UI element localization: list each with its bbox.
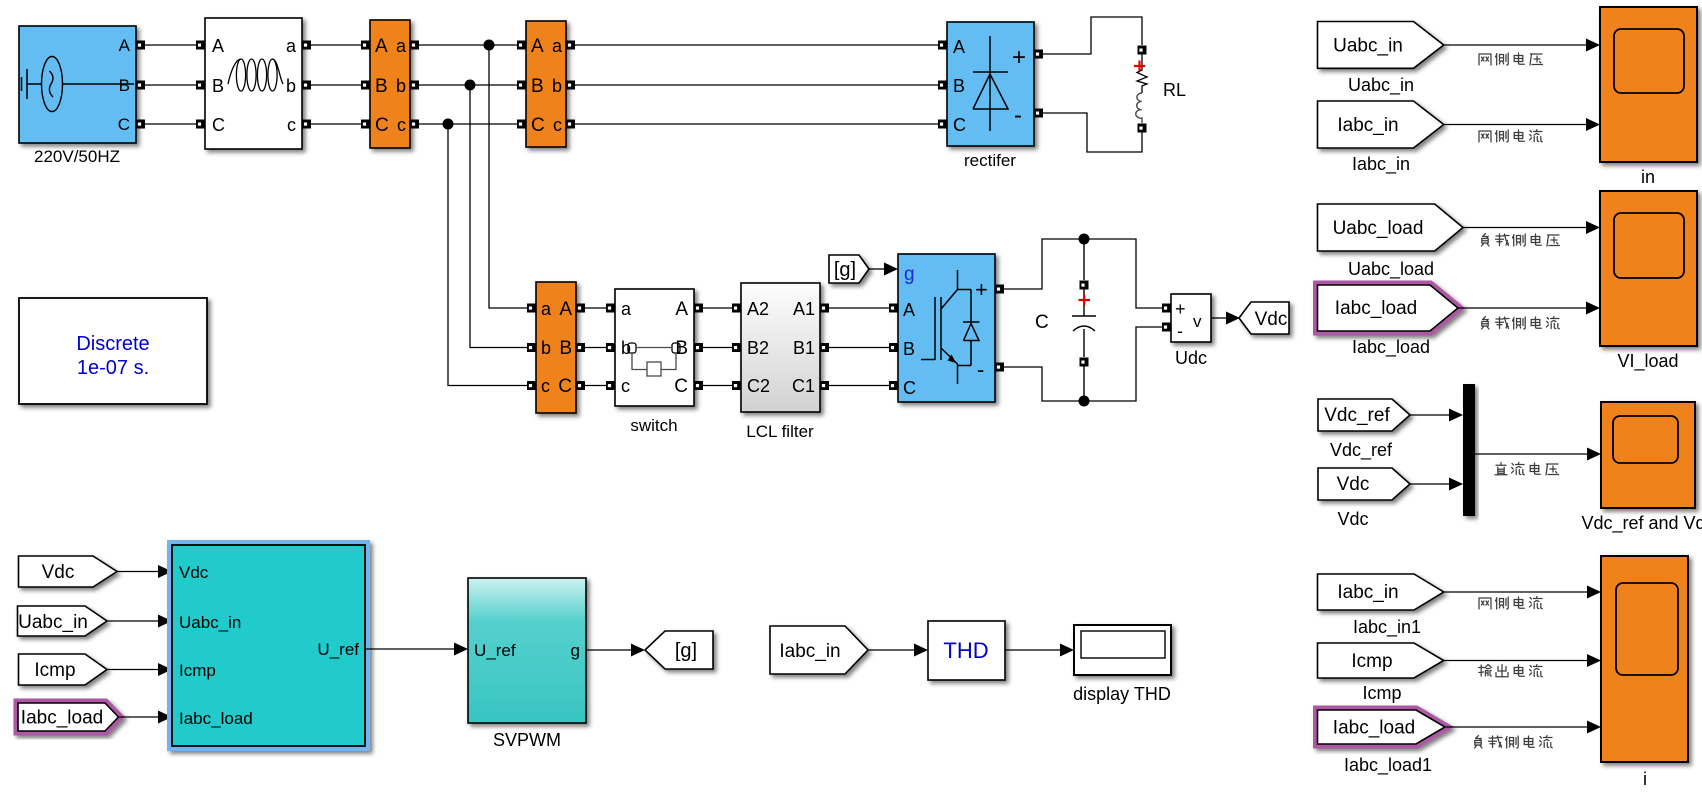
- svg-text:Icmp: Icmp: [179, 661, 216, 680]
- From tag Icmp (controller input): [19, 654, 108, 685]
- svg-text:Vdc_ref and Vdc: Vdc_ref and Vdc: [1581, 513, 1702, 534]
- rectifier output ports: [1034, 50, 1043, 59]
- wire rowA meas2-to-rectifier: [575, 44, 938, 46]
- meas1 right ports: [410, 41, 419, 50]
- From tag Uabc_in (controller input): [18, 606, 108, 636]
- node dc minus: [1079, 396, 1090, 407]
- label Uabc_load: [1348, 259, 1434, 280]
- wire phase c switch-to-LCL: [703, 385, 732, 387]
- svg-text:Icmp: Icmp: [34, 660, 75, 681]
- wire phase b meas3-to-switch: [585, 347, 606, 349]
- svg-text:b: b: [621, 338, 631, 358]
- label LCL filter: [746, 422, 814, 441]
- wire Iabc_in to THD: [868, 644, 928, 657]
- LCL filter block: [741, 283, 820, 412]
- wire Icmp to controller: [107, 663, 172, 676]
- switch left ports: [606, 304, 615, 313]
- wire mux to scope Vdc: [1475, 448, 1601, 461]
- svg-text:Icmp: Icmp: [1362, 683, 1401, 703]
- svg-text:Uabc_load: Uabc_load: [1348, 259, 1434, 280]
- svg-text:B: B: [559, 338, 572, 359]
- scope Vdc_ref and Vdc: [1601, 402, 1695, 508]
- svg-text:C: C: [953, 115, 966, 135]
- wire label load-side current: [1482, 317, 1560, 330]
- wire Udc to Goto Vdc: [1211, 312, 1240, 325]
- svg-text:Vdc: Vdc: [42, 562, 75, 583]
- wire inverter minus to Udc minus: [1004, 327, 1162, 401]
- label Iabc_load1: [1344, 755, 1432, 776]
- svg-text:switch: switch: [630, 416, 677, 435]
- svg-text:B1: B1: [793, 338, 815, 358]
- svg-text:rectifer: rectifer: [964, 151, 1016, 170]
- From tag Vdc_ref: [1318, 399, 1410, 431]
- source port A: [136, 41, 145, 50]
- label Iabc_in1: [1353, 617, 1421, 638]
- label Iabc_in: [1352, 154, 1410, 175]
- display THD block: [1074, 625, 1171, 675]
- svg-text:B: B: [675, 338, 688, 359]
- wire Uabc_in to controller: [107, 615, 172, 628]
- From tag Uabc_in (scope in): [1318, 22, 1444, 69]
- From tag g: [829, 255, 869, 283]
- From tag Iabc_in (scope in): [1318, 101, 1444, 148]
- Udc voltage measurement: [1171, 294, 1211, 342]
- capacitor top port: [1080, 281, 1089, 290]
- svg-text:+: +: [975, 277, 988, 302]
- wire phase c LCL-to-inverter: [829, 385, 889, 387]
- label Udc: [1175, 348, 1207, 368]
- svg-text:B: B: [903, 339, 915, 359]
- wire label output current: [1479, 665, 1543, 677]
- svg-text:A: A: [212, 36, 224, 56]
- wire SVPWM to Goto g: [586, 644, 645, 657]
- svg-text:c: c: [287, 115, 296, 135]
- wire Uabc_load to scope VI_load: [1463, 221, 1600, 234]
- svg-text:A: A: [375, 36, 388, 57]
- svg-text:a: a: [541, 299, 552, 319]
- svg-text:SVPWM: SVPWM: [493, 730, 561, 750]
- switch right ports: [694, 304, 703, 313]
- meas3 right ports: [576, 304, 585, 313]
- three-phase VI measurement meas2: [526, 21, 566, 147]
- wire rowC meas1-to-meas2: [419, 123, 517, 125]
- wire Iabc_load to scope i: [1445, 721, 1601, 734]
- svg-text:display THD: display THD: [1073, 684, 1171, 704]
- label rectifer: [964, 151, 1016, 170]
- THD block: [928, 621, 1005, 680]
- three-phase inductor block: [205, 18, 302, 149]
- svg-text:Vdc_ref: Vdc_ref: [1324, 405, 1390, 426]
- inverter dc ports: [995, 285, 1004, 294]
- svg-text:A: A: [953, 37, 965, 57]
- wire From-g to inverter gate: [869, 263, 898, 276]
- From tag Uabc_load: [1318, 204, 1464, 251]
- rectifier block: [947, 22, 1034, 146]
- svg-text:B: B: [953, 76, 965, 96]
- wire rowB meas1-to-meas2: [419, 84, 517, 86]
- svg-text:Iabc_in1: Iabc_in1: [1353, 617, 1421, 638]
- svg-text:U_ref: U_ref: [317, 640, 359, 659]
- svg-text:C2: C2: [747, 376, 770, 396]
- svg-text:Uabc_in: Uabc_in: [1348, 75, 1414, 96]
- label Vdc_ref and Vdc: [1581, 513, 1702, 534]
- source port C: [136, 120, 145, 129]
- svg-text:Icmp: Icmp: [1351, 651, 1392, 672]
- wire Vdc to controller: [117, 565, 172, 578]
- svg-text:Uabc_in: Uabc_in: [18, 612, 88, 633]
- svg-text:U_ref: U_ref: [474, 641, 516, 660]
- label Vdc: [1337, 509, 1368, 529]
- wire rowA source-to-inductor: [145, 44, 196, 46]
- Goto tag g: [645, 631, 713, 669]
- svg-text:Vdc: Vdc: [1337, 474, 1370, 495]
- source port B: [136, 81, 145, 90]
- node A tap: [484, 40, 495, 51]
- label C: [1035, 312, 1049, 333]
- rectifier input ports: [938, 41, 947, 50]
- svg-text:1e-07 s.: 1e-07 s.: [77, 357, 149, 379]
- svg-text:A: A: [559, 299, 572, 320]
- scope VI_load: [1600, 191, 1697, 346]
- wire Vdc_ref to mux: [1410, 409, 1463, 422]
- wire rectifier minus to RL: [1043, 113, 1142, 152]
- svg-text:Iabc_load: Iabc_load: [1335, 298, 1417, 319]
- wire rowB source-to-inductor: [145, 84, 196, 86]
- svg-text:[g]: [g]: [675, 640, 697, 662]
- wire rowB meas2-to-rectifier: [575, 84, 938, 86]
- From tag Icmp (scope i): [1318, 643, 1444, 678]
- svg-text:220V/50HZ: 220V/50HZ: [34, 147, 120, 166]
- svg-text:c: c: [541, 376, 550, 396]
- node dc plus: [1079, 234, 1090, 245]
- svg-text:g: g: [904, 264, 915, 285]
- inductor left ports: [196, 41, 205, 50]
- wire rectifier plus to RL: [1043, 17, 1142, 54]
- wire phase b switch-to-LCL: [703, 347, 732, 349]
- svg-text:v: v: [1193, 312, 1202, 331]
- wire label grid-side current: [1479, 130, 1542, 143]
- svg-text:g: g: [571, 641, 580, 660]
- svg-text:-: -: [1014, 102, 1022, 129]
- RL top port: [1138, 46, 1147, 55]
- wire Uabc_in to scope in: [1444, 39, 1600, 52]
- wire label grid-side current 2: [1479, 597, 1542, 610]
- wire label load-side current 2: [1475, 736, 1553, 749]
- AC source 220V/50HZ: [19, 26, 136, 143]
- From tag Vdc (controller input): [19, 556, 118, 587]
- svg-text:c: c: [553, 115, 562, 135]
- three-phase VI measurement meas3: [536, 282, 576, 413]
- svg-text:A: A: [675, 299, 688, 320]
- wire phase b LCL-to-inverter: [829, 347, 889, 349]
- svg-text:Vdc: Vdc: [1255, 309, 1288, 330]
- label switch: [630, 416, 677, 435]
- wire rowA meas1-to-meas2: [419, 44, 517, 46]
- wire THD to display: [1005, 644, 1074, 657]
- wire phase c meas3-to-switch: [585, 385, 606, 387]
- svg-text:b: b: [541, 338, 551, 358]
- SVPWM subsystem: [468, 578, 586, 723]
- controller subsystem (selected): [170, 543, 368, 749]
- svg-text:Vdc_ref: Vdc_ref: [1330, 440, 1393, 461]
- label display THD: [1073, 684, 1171, 704]
- svg-text:Vdc: Vdc: [179, 563, 209, 582]
- series RL load branch: [1134, 54, 1147, 123]
- label VI_load: [1617, 351, 1678, 372]
- svg-text:a: a: [396, 36, 407, 56]
- svg-text:RL: RL: [1163, 80, 1186, 100]
- mux: [1463, 384, 1475, 516]
- svg-text:-: -: [977, 357, 984, 382]
- svg-text:C: C: [212, 115, 225, 135]
- wire Iabc_in to scope in: [1444, 118, 1600, 131]
- IGBT inverter block: [898, 254, 995, 402]
- svg-text:C: C: [375, 115, 389, 136]
- svg-text:Uabc_load: Uabc_load: [1333, 218, 1424, 239]
- From tag Iabc_load (controller input, logged signal): [18, 703, 119, 731]
- svg-text:Iabc_load: Iabc_load: [179, 709, 253, 728]
- svg-text:A: A: [119, 36, 131, 55]
- svg-text:+: +: [1175, 299, 1186, 319]
- wire Iabc_in to scope i: [1444, 586, 1601, 599]
- svg-text:a: a: [552, 36, 563, 56]
- capacitor bottom port: [1080, 358, 1089, 367]
- svg-text:Uabc_in: Uabc_in: [1333, 36, 1403, 57]
- svg-text:VI_load: VI_load: [1617, 351, 1678, 372]
- capacitor C branch: [1072, 239, 1096, 401]
- wire tapA-down to phase a: [489, 45, 527, 308]
- svg-text:A: A: [903, 300, 915, 320]
- svg-text:in: in: [1641, 167, 1655, 187]
- label SVPWM: [493, 730, 561, 750]
- Discrete solver block: [19, 298, 207, 404]
- From tag Iabc_in (scope i): [1318, 574, 1444, 610]
- label 220V/50HZ: [34, 147, 120, 166]
- svg-text:c: c: [397, 115, 406, 135]
- wire label load-side voltage: [1482, 234, 1560, 247]
- label Icmp: [1362, 683, 1401, 703]
- svg-text:Iabc_in: Iabc_in: [1337, 582, 1398, 603]
- label Uabc_in: [1348, 75, 1414, 96]
- From tag Iabc_in (THD): [770, 626, 868, 674]
- svg-text:Iabc_load: Iabc_load: [21, 708, 103, 729]
- wire Icmp to scope i: [1444, 654, 1601, 667]
- svg-text:C: C: [674, 376, 688, 397]
- wire Iabc_load to scope VI_load: [1458, 302, 1600, 315]
- svg-text:B: B: [531, 76, 544, 97]
- wire controller U_ref to SVPWM: [365, 643, 468, 656]
- svg-text:C: C: [118, 115, 130, 134]
- svg-text:Iabc_in: Iabc_in: [1352, 154, 1410, 175]
- svg-text:b: b: [396, 76, 406, 96]
- meas2 right ports: [566, 41, 575, 50]
- From tag Vdc (mux input): [1318, 468, 1410, 500]
- svg-text:Discrete: Discrete: [76, 333, 149, 355]
- LCL left ports: [732, 304, 741, 313]
- svg-text:Iabc_load: Iabc_load: [1333, 718, 1415, 739]
- svg-text:A1: A1: [793, 299, 815, 319]
- svg-text:Iabc_load: Iabc_load: [1352, 337, 1430, 358]
- wire Iabc_load to controller: [119, 711, 173, 724]
- label RL: [1163, 80, 1186, 100]
- svg-text:Iabc_in: Iabc_in: [1337, 115, 1398, 136]
- Goto tag Vdc: [1239, 302, 1289, 334]
- svg-text:+: +: [1012, 44, 1026, 71]
- wire rowC inductor-to-meas1: [311, 123, 361, 125]
- scope in: [1600, 7, 1697, 162]
- svg-text:C: C: [903, 378, 916, 398]
- svg-text:-: -: [1177, 321, 1183, 341]
- LCL right ports: [820, 304, 829, 313]
- wire rowA inductor-to-meas1: [311, 44, 361, 46]
- wire tapC-down to phase c: [448, 124, 527, 386]
- svg-text:B: B: [375, 76, 388, 97]
- label i: [1643, 769, 1647, 789]
- From tag Iabc_load (scope i, logged): [1318, 710, 1446, 744]
- svg-text:A: A: [531, 36, 544, 57]
- svg-text:c: c: [621, 376, 630, 396]
- From tag Iabc_load (logged): [1318, 285, 1459, 331]
- node B tap: [465, 80, 476, 91]
- wire rowB inductor-to-meas1: [311, 84, 361, 86]
- scope i: [1601, 556, 1688, 762]
- svg-text:Iabc_in: Iabc_in: [779, 641, 840, 662]
- label Iabc_load: [1352, 337, 1430, 358]
- svg-text:[g]: [g]: [834, 259, 856, 281]
- three-phase breaker switch: [615, 289, 694, 406]
- svg-text:Iabc_load1: Iabc_load1: [1344, 755, 1432, 776]
- svg-text:C1: C1: [792, 376, 815, 396]
- RL bottom port: [1138, 124, 1147, 133]
- svg-text:b: b: [286, 76, 296, 96]
- node C tap: [443, 119, 454, 130]
- wire label dc voltage: [1495, 463, 1559, 476]
- wire phase a meas3-to-switch: [585, 307, 606, 309]
- inverter phase ports: [889, 304, 898, 313]
- wire phase a LCL-to-inverter: [829, 307, 889, 309]
- svg-text:Udc: Udc: [1175, 348, 1207, 368]
- label Vdc_ref: [1330, 440, 1393, 461]
- svg-text:C: C: [558, 376, 572, 397]
- meas1 left ports: [361, 41, 370, 50]
- label in: [1641, 167, 1655, 187]
- svg-text:C: C: [1035, 312, 1049, 333]
- wire tapB-down to phase b: [470, 85, 527, 348]
- wire Vdc to mux: [1410, 478, 1463, 491]
- Udc input ports: [1162, 304, 1171, 313]
- wire rowC meas2-to-rectifier: [575, 123, 938, 125]
- svg-text:C: C: [531, 115, 545, 136]
- svg-text:Vdc: Vdc: [1337, 509, 1368, 529]
- svg-text:B: B: [212, 76, 224, 96]
- meas3 left ports: [527, 304, 536, 313]
- wire inverter plus to Udc plus: [1004, 239, 1162, 308]
- svg-text:a: a: [621, 299, 632, 319]
- svg-text:THD: THD: [943, 638, 988, 663]
- svg-text:B2: B2: [747, 338, 769, 358]
- svg-text:a: a: [286, 36, 297, 56]
- wire rowC source-to-inductor: [145, 123, 196, 125]
- inductor right ports: [302, 41, 311, 50]
- svg-text:i: i: [1643, 769, 1647, 789]
- three-phase VI measurement meas1: [370, 20, 410, 148]
- svg-text:Uabc_in: Uabc_in: [179, 613, 241, 632]
- svg-text:A2: A2: [747, 299, 769, 319]
- meas2 left ports: [517, 41, 526, 50]
- wire phase a switch-to-LCL: [703, 307, 732, 309]
- svg-text:LCL filter: LCL filter: [746, 422, 814, 441]
- wire label grid-side voltage: [1479, 53, 1543, 65]
- svg-text:B: B: [119, 76, 130, 95]
- svg-text:b: b: [552, 76, 562, 96]
